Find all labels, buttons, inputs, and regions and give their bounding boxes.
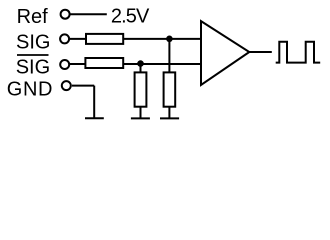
svg-text:SIG: SIG xyxy=(16,57,50,79)
svg-text:2.5V: 2.5V xyxy=(111,6,150,28)
svg-text:Ref: Ref xyxy=(17,6,49,28)
svg-text:GND: GND xyxy=(7,79,53,101)
svg-text:SIG: SIG xyxy=(16,31,50,53)
